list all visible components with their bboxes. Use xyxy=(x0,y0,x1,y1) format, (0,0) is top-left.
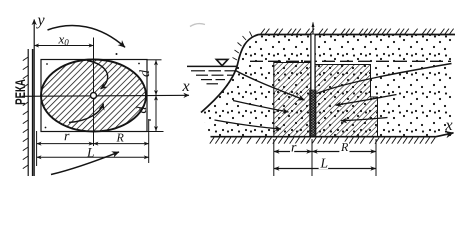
static water table (dashed) xyxy=(250,60,451,62)
well center node xyxy=(91,93,97,99)
dimension r (section) xyxy=(274,151,312,153)
ground surface line xyxy=(259,34,456,36)
small dash between diagrams xyxy=(190,24,205,27)
sand stipple region xyxy=(201,35,452,137)
label r (plan) xyxy=(65,134,70,141)
ground surface hatch ticks xyxy=(261,29,454,35)
dimension d upper xyxy=(147,60,162,95)
extension line right xyxy=(148,119,150,163)
label d upper xyxy=(139,70,149,77)
flow arrow right lower xyxy=(341,118,388,121)
dimension x0 xyxy=(34,45,93,47)
label L (plan) xyxy=(87,148,94,157)
label x (plan) xyxy=(182,84,189,91)
label x (section) xyxy=(445,123,452,130)
dimension L (plan) xyxy=(37,156,149,158)
well screen crosshatch xyxy=(310,90,316,136)
x-axis (plan) xyxy=(22,95,190,96)
label r (section) xyxy=(292,145,297,152)
center vertical extension line xyxy=(93,38,95,147)
dimension R (section) xyxy=(312,151,376,153)
label d lower xyxy=(136,106,146,113)
top curved arrow xyxy=(48,26,126,48)
spiral arrow lower xyxy=(69,104,104,123)
hatched ellipse contour xyxy=(41,60,146,132)
water level mark (nabla) xyxy=(216,59,228,65)
dimension d lower xyxy=(147,96,164,132)
label x0 xyxy=(58,38,68,46)
river bank hatch ticks xyxy=(23,57,28,169)
speck dots in rectangle corners xyxy=(45,53,151,128)
spiral arrow upper xyxy=(87,61,108,90)
rectangle around contour xyxy=(41,60,147,132)
depression curve left xyxy=(236,71,305,101)
label РЕКА xyxy=(15,79,25,104)
water texture dashes xyxy=(191,71,235,84)
well axis stub xyxy=(312,23,314,35)
y-axis xyxy=(33,20,35,177)
river water surface xyxy=(187,65,238,67)
flow arrow left lower xyxy=(215,120,282,129)
flow arrow left upper xyxy=(233,101,289,113)
label R (plan) xyxy=(116,134,123,142)
label R (section) xyxy=(341,143,348,151)
river bank double line xyxy=(28,49,32,176)
flow arrow right upper xyxy=(336,95,397,106)
bottom curved arrow xyxy=(51,152,119,175)
label L (section) xyxy=(320,159,327,168)
label y xyxy=(36,18,44,29)
slope hatch ticks xyxy=(233,32,253,61)
impermeable base / x-axis xyxy=(211,133,454,137)
dimension R (plan) xyxy=(94,143,149,145)
drawdown zone hatched left xyxy=(274,63,311,137)
depression curve right xyxy=(317,64,452,94)
extension lines (section dims) xyxy=(274,139,376,176)
well casing walls xyxy=(311,35,315,137)
extension line left dims xyxy=(36,131,38,166)
dimension r (plan) xyxy=(37,143,94,145)
drawdown zone hatched right xyxy=(315,65,377,137)
well bore white xyxy=(311,35,315,137)
river bank slope xyxy=(201,35,259,113)
base hatch ticks xyxy=(210,138,435,144)
dimension L (section) xyxy=(274,168,376,170)
